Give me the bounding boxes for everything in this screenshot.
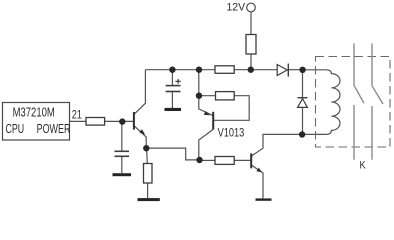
svg-text:M37210M: M37210M bbox=[13, 106, 55, 120]
svg-text:POWER: POWER bbox=[37, 122, 71, 136]
svg-text:V1013: V1013 bbox=[218, 126, 245, 139]
svg-text:21: 21 bbox=[72, 109, 82, 121]
svg-text:K: K bbox=[360, 160, 366, 172]
svg-text:CPU: CPU bbox=[6, 122, 25, 136]
svg-text:12V: 12V bbox=[227, 1, 246, 13]
